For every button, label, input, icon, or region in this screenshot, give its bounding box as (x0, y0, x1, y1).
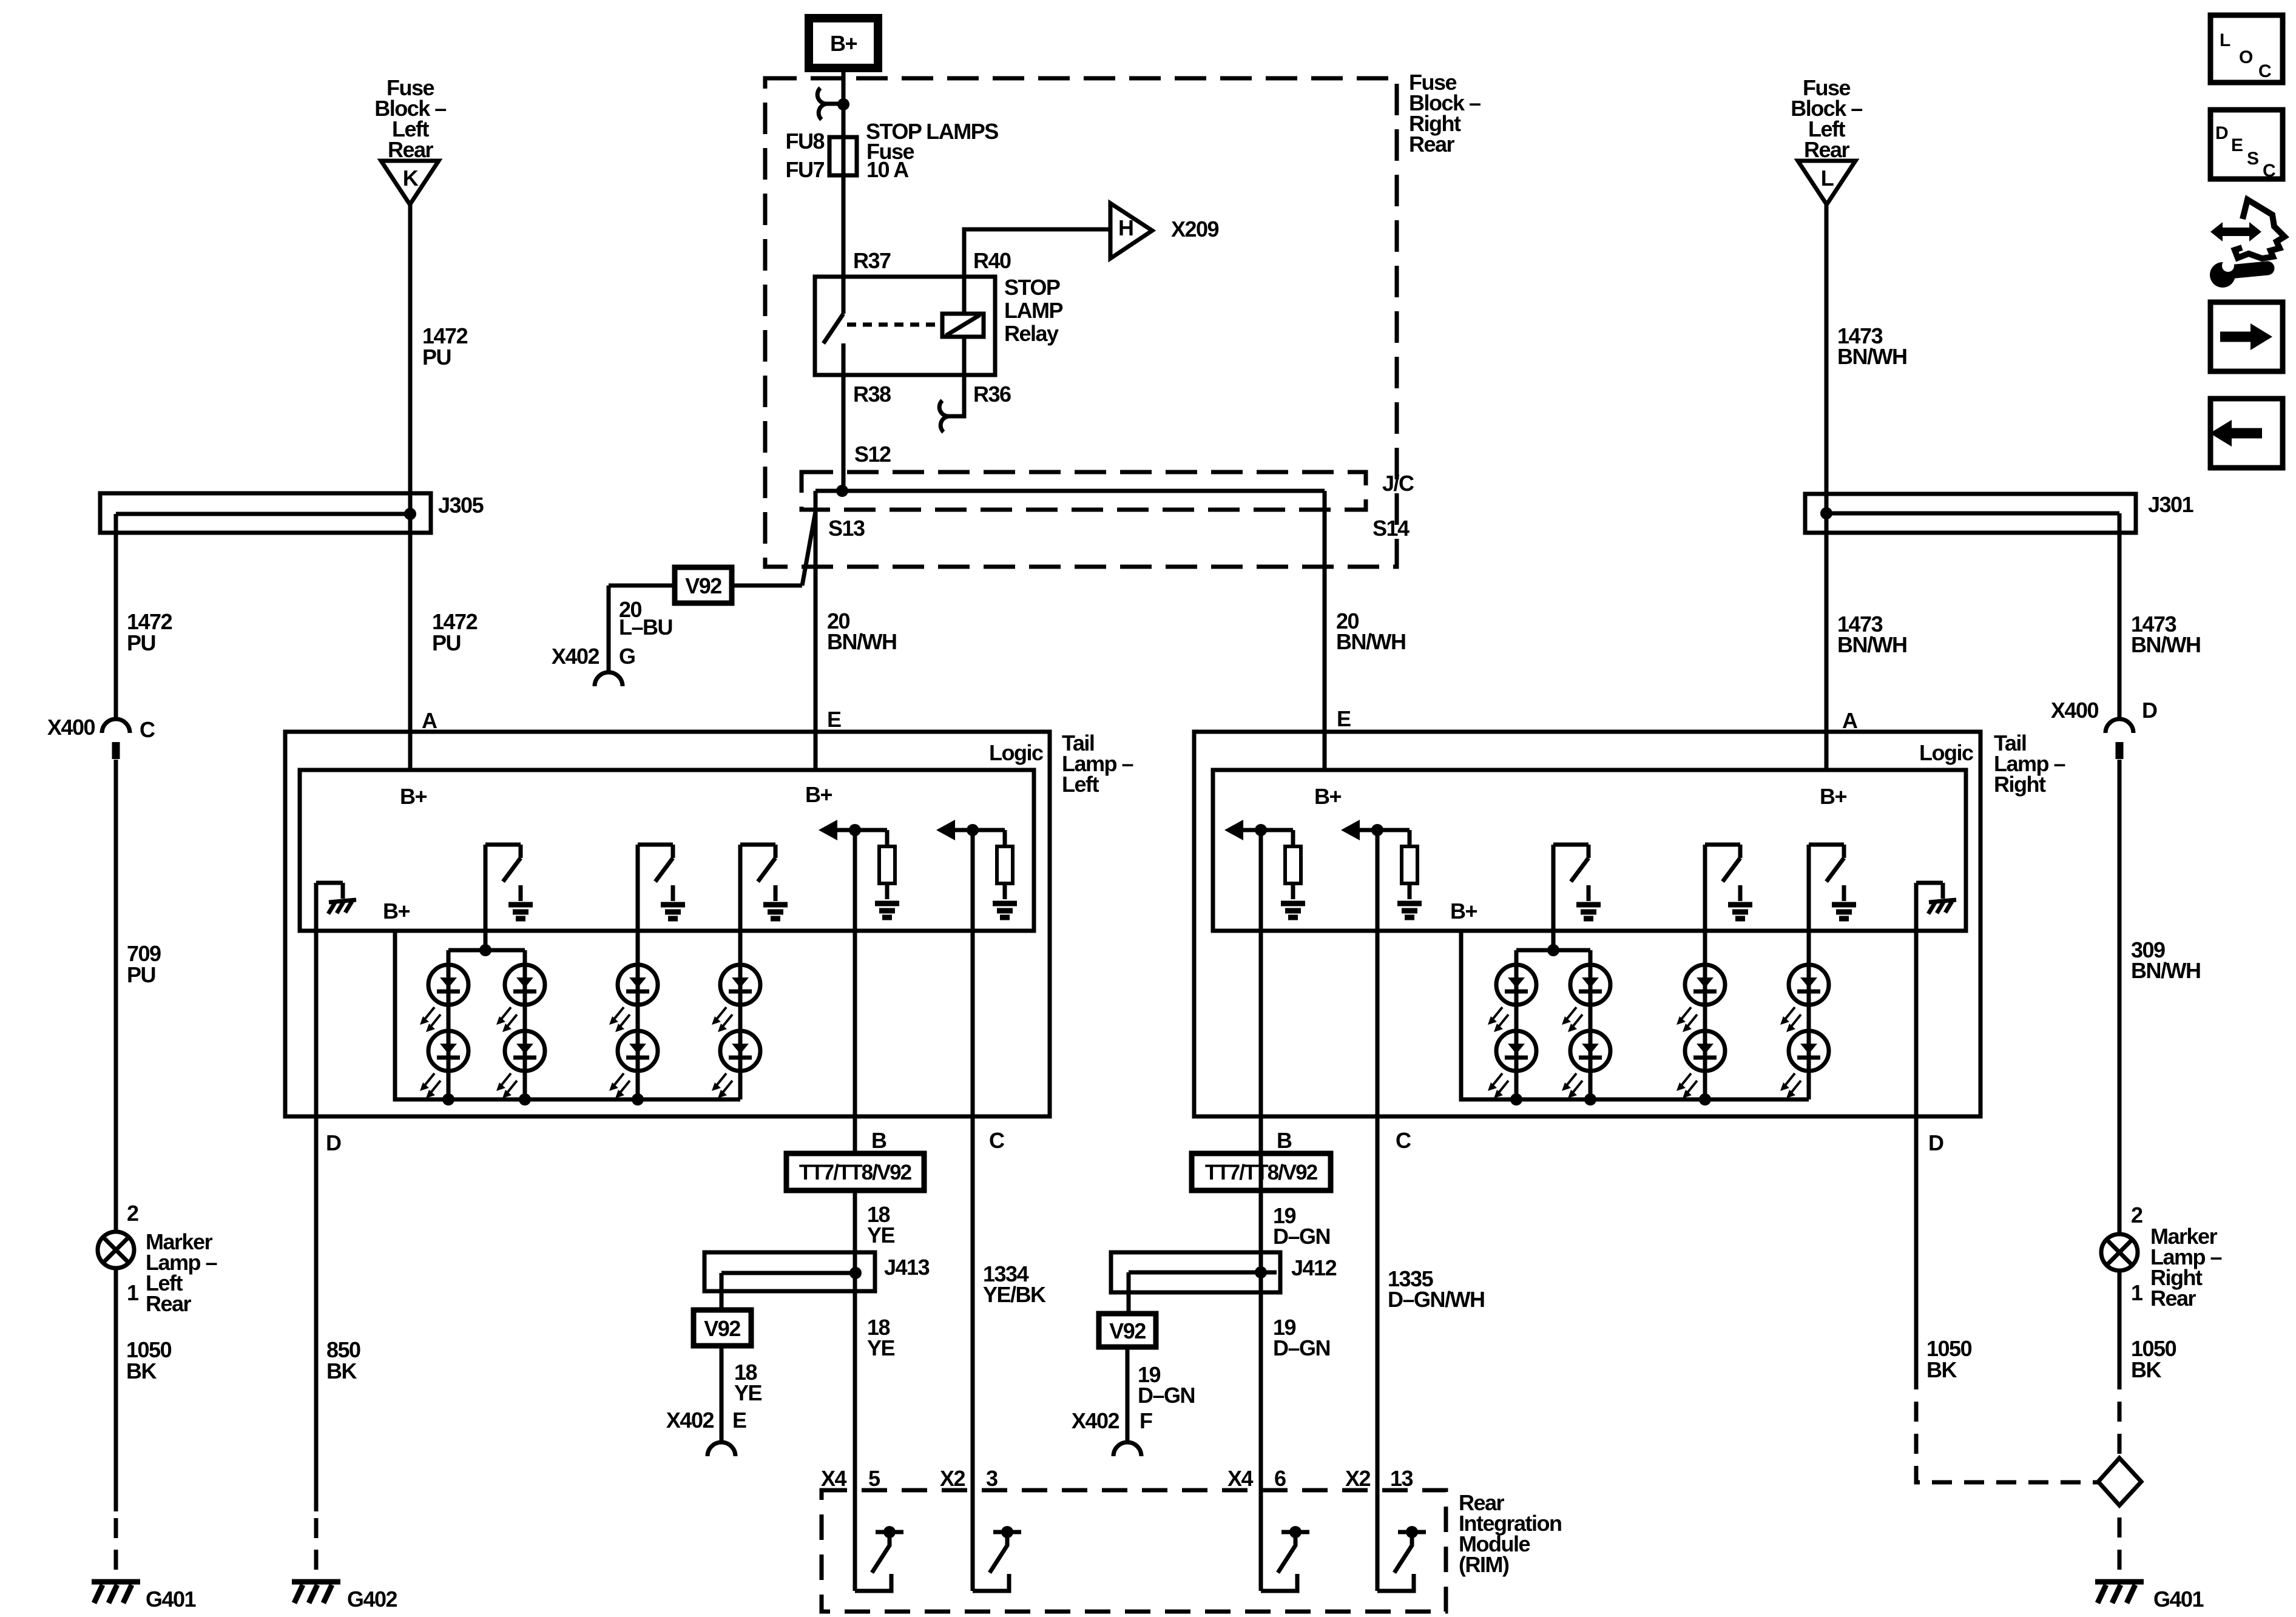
wire J413 to V92 (720, 1273, 724, 1310)
svg-text:E: E (827, 707, 841, 732)
label Tail Lamp Right (1994, 731, 2065, 797)
relay actuation dashed link (847, 323, 941, 327)
svg-text:B+: B+ (1450, 899, 1477, 923)
fuse labels (785, 119, 998, 182)
svg-text:A: A (422, 708, 437, 733)
svg-text:2: 2 (127, 1201, 138, 1226)
B+ feed wire to LED bus left (395, 931, 740, 1099)
svg-text:13: 13 (1390, 1466, 1413, 1491)
svg-text:L: L (1821, 166, 1834, 191)
wire X400 C to marker lamp left (114, 760, 118, 1232)
svg-text:D: D (2215, 123, 2228, 143)
svg-text:X4: X4 (821, 1466, 847, 1491)
svg-text:PU: PU (127, 962, 155, 987)
fuse block right rear label (1409, 70, 1481, 157)
svg-text:C: C (2258, 61, 2271, 81)
svg-text:FU8: FU8 (785, 129, 824, 154)
junction box J/C dashed (802, 472, 1366, 510)
relay coil (942, 314, 984, 337)
relay switch contact (823, 277, 843, 376)
LED D11 (1562, 965, 1610, 1032)
svg-text:B: B (1277, 1128, 1292, 1153)
svg-text:3: 3 (986, 1466, 998, 1491)
svg-text:C: C (1396, 1128, 1411, 1153)
marker lamp right label (2150, 1224, 2222, 1311)
svg-text:STOP: STOP (1004, 275, 1060, 300)
svg-text:PU: PU (422, 345, 451, 370)
splice diamond (2098, 1458, 2141, 1505)
wire label 1473 BN/WH (L lower) (1837, 612, 1906, 657)
svg-text:2: 2 (2131, 1203, 2142, 1227)
svg-text:D: D (326, 1130, 341, 1155)
svg-text:D–GN: D–GN (1273, 1335, 1330, 1360)
wire V92 to X402 F (1126, 1347, 1130, 1442)
junction dot top bus right (1547, 944, 1559, 956)
wire R38 to S12 junction (842, 376, 846, 491)
tail lamp right logic box (1213, 770, 1966, 931)
svg-text:S14: S14 (1373, 516, 1410, 541)
icon vehicle outline (2235, 200, 2284, 258)
marker lamp left label (146, 1229, 217, 1316)
wire bus left end to E pin left lamp (814, 491, 818, 770)
connector X400 C (47, 715, 155, 759)
fuse block right rear dashed box (765, 78, 1397, 567)
LED column wires left (448, 965, 740, 1099)
svg-text:Relay: Relay (1004, 321, 1059, 346)
icon DESC (2210, 110, 2283, 181)
switch 3 left lamp (740, 845, 788, 965)
svg-text:B+: B+ (400, 784, 427, 809)
wire label 19 D-GN lower (1273, 1315, 1330, 1360)
wire marker lamp left to G401 (114, 1268, 118, 1511)
svg-text:E: E (2231, 135, 2243, 155)
ground G401 right (2095, 1582, 2204, 1612)
svg-text:K: K (403, 166, 419, 191)
icon wrench (2210, 260, 2267, 288)
ground G402 (292, 1582, 397, 1612)
svg-text:L: L (2220, 30, 2230, 50)
svg-text:Rear: Rear (2150, 1286, 2196, 1311)
wire label 1335 D-GN/WH (1388, 1266, 1485, 1312)
dashed wire marker to diamond (2118, 1389, 2122, 1458)
LED top bus left (448, 950, 525, 965)
current sense 1 right lamp (1224, 820, 1305, 917)
svg-text:D: D (1928, 1130, 1943, 1155)
inline device V92 (top) (675, 567, 732, 603)
switch 3 right lamp (1809, 845, 1856, 965)
junction dot J412 (1255, 1266, 1267, 1278)
svg-text:D–GN: D–GN (1273, 1224, 1330, 1249)
junction block J305 (100, 493, 484, 533)
junction dot sense 1 left (849, 824, 861, 836)
svg-text:D–GN: D–GN (1138, 1383, 1195, 1408)
wire label 1473 BN/WH (L upper) (1837, 323, 1906, 369)
svg-text:BN/WH: BN/WH (1837, 632, 1906, 657)
wire label 1334 YE/BK (983, 1261, 1046, 1307)
svg-text:Logic: Logic (989, 740, 1043, 765)
svg-text:J412: J412 (1291, 1255, 1337, 1280)
svg-text:Rear: Rear (1409, 132, 1455, 157)
LED D3 (496, 965, 545, 1032)
svg-text:X402: X402 (1072, 1408, 1119, 1433)
icon double arrow (2210, 222, 2261, 241)
LED D8 (712, 1031, 760, 1098)
wire V92 to X402 G (609, 586, 675, 672)
wire J412 to V92 (1127, 1272, 1131, 1314)
wire chassis ground to D pin right (1914, 883, 1919, 1389)
rear integration module dashed box (822, 1490, 1446, 1612)
wire label 1472 PU (left branch) (127, 609, 172, 655)
inline device V92 (left) (694, 1310, 751, 1346)
svg-text:BK: BK (2131, 1357, 2161, 1382)
svg-text:BN/WH: BN/WH (1336, 629, 1405, 654)
fuse FU8/FU7 STOP LAMPS 10A (829, 137, 857, 175)
svg-text:YE/BK: YE/BK (983, 1282, 1046, 1307)
junction dot J305 (404, 508, 416, 520)
junction dot J413 (849, 1267, 862, 1279)
wire marker lamp right down (2118, 1271, 2122, 1389)
stop lamp relay box (815, 277, 995, 375)
wire label 20 L-BU (619, 597, 672, 640)
svg-text:S12: S12 (854, 442, 891, 467)
LED D2 (420, 1031, 468, 1098)
wire label 1050 BK right outer (2131, 1336, 2176, 1382)
LED D7 (712, 965, 760, 1032)
svg-text:1: 1 (127, 1280, 139, 1305)
LED D10 (1488, 1031, 1536, 1098)
wire B+ to relay R37 (842, 68, 846, 277)
current sense 1 left lamp (819, 820, 899, 917)
connector labels X4 5 X2 3 (821, 1466, 998, 1491)
svg-text:PU: PU (432, 630, 461, 655)
RIM switch X2-13 (1377, 1526, 1426, 1591)
LED D15 (1780, 965, 1829, 1032)
relay coil wires R40/R36 (948, 229, 1110, 416)
current sense 2 left lamp (936, 820, 1017, 917)
ground G401 left (92, 1582, 197, 1612)
svg-text:BK: BK (326, 1359, 357, 1383)
wire J305 to X400 C (114, 514, 118, 719)
junction block J301 (1805, 492, 2194, 533)
wire label 309 BN/WH (2131, 937, 2200, 983)
wire label 1472 PU (K upper) (422, 323, 468, 370)
junction dot S12 (836, 485, 848, 497)
svg-text:YE: YE (734, 1380, 762, 1405)
LED D12 (1562, 1031, 1610, 1098)
dashed wire to G402 (314, 1518, 319, 1570)
junction dot sense 2 left (967, 824, 979, 836)
inline device V92 (right) (1099, 1314, 1156, 1347)
svg-text:O: O (2239, 47, 2253, 67)
wire label 1473 BN/WH (right branch) (2131, 612, 2200, 657)
wire K to tail lamp A (408, 204, 413, 770)
svg-text:BN/WH: BN/WH (1837, 344, 1906, 369)
harness label TT7/TT8/V92 left (786, 1153, 924, 1190)
B+ feed wire to LED bus right (1461, 931, 1809, 1099)
svg-text:X402: X402 (552, 644, 599, 669)
svg-text:J305: J305 (438, 493, 484, 518)
svg-text:V92: V92 (1109, 1318, 1146, 1343)
wire L to tail lamp A right (1825, 204, 1829, 770)
svg-text:G402: G402 (347, 1587, 397, 1612)
switch 1 right lamp (1553, 845, 1601, 950)
svg-text:R38: R38 (853, 382, 891, 407)
wire V92 to X402 E (720, 1346, 724, 1442)
junction dots LED bus right (1510, 1093, 1711, 1106)
svg-text:D: D (2142, 698, 2157, 723)
wire label 18 YE upper (867, 1202, 895, 1247)
wire C left lamp (971, 830, 975, 1591)
junction dot sense 1 right (1255, 824, 1267, 836)
svg-text:V92: V92 (704, 1316, 740, 1341)
wire label 19 D-GN (V92 branch) (1138, 1362, 1195, 1408)
label Tail Lamp Left (1062, 731, 1133, 797)
hook at R36 (939, 400, 950, 432)
svg-text:X4: X4 (1227, 1466, 1254, 1491)
connector labels X4 6 X2 13 (1227, 1466, 1413, 1491)
wire label 1050 BK right inner (1926, 1336, 1972, 1382)
svg-text:Right: Right (1994, 772, 2046, 797)
svg-text:F: F (1140, 1408, 1152, 1433)
wire label 19 D-GN upper (1273, 1203, 1330, 1249)
svg-text:J301: J301 (2148, 492, 2194, 517)
svg-text:C: C (2263, 161, 2275, 181)
svg-text:(RIM): (RIM) (1459, 1552, 1509, 1577)
svg-text:D–GN/WH: D–GN/WH (1388, 1287, 1485, 1312)
svg-text:R40: R40 (973, 248, 1011, 273)
fuse block left rear label (L) (1791, 75, 1862, 162)
current sense 2 right lamp (1341, 820, 1422, 917)
svg-text:B+: B+ (1820, 784, 1846, 809)
RIM switch X4-6 (1261, 1526, 1309, 1591)
svg-text:C: C (989, 1128, 1005, 1153)
label Rear Integration Module (RIM) (1459, 1490, 1562, 1577)
svg-text:BN/WH: BN/WH (2131, 632, 2200, 657)
connector X400 D (2051, 698, 2157, 759)
RIM switch X2-3 (973, 1526, 1021, 1591)
svg-text:H: H (1118, 215, 1133, 240)
fuse block left rear label (K) (374, 75, 446, 162)
icon arrow right (2210, 302, 2283, 371)
connector X402 F (1072, 1408, 1152, 1456)
connector triangle L (1798, 161, 1855, 204)
svg-text:Logic: Logic (1919, 740, 1973, 765)
wire bus right end to E pin right lamp (1323, 491, 1327, 770)
switch 2 right lamp (1705, 845, 1752, 965)
dashed wire D to diamond (1916, 1389, 2098, 1482)
svg-text:Rear: Rear (1804, 137, 1850, 162)
svg-text:FU7: FU7 (785, 157, 824, 182)
svg-text:X402: X402 (666, 1408, 714, 1433)
junction dot sense 2 right (1371, 824, 1383, 836)
svg-text:5: 5 (868, 1466, 880, 1491)
svg-text:S: S (2247, 149, 2258, 169)
svg-text:LAMP: LAMP (1004, 298, 1062, 323)
tail lamp right outer box (1194, 732, 1980, 1116)
svg-text:YE: YE (867, 1335, 895, 1360)
svg-text:TT7/TT8/V92: TT7/TT8/V92 (799, 1161, 912, 1184)
tail lamp left logic box (300, 770, 1034, 931)
LED D4 (496, 1031, 545, 1098)
svg-text:Rear: Rear (388, 137, 434, 162)
wire B left lamp (853, 830, 857, 1591)
svg-text:Left: Left (1062, 772, 1099, 797)
LED D13 (1676, 965, 1725, 1032)
svg-text:BN/WH: BN/WH (827, 629, 896, 654)
svg-text:BK: BK (126, 1359, 157, 1383)
svg-text:PU: PU (127, 630, 155, 655)
svg-text:A: A (1842, 708, 1858, 733)
icon arrow left (2210, 399, 2283, 468)
wire label 18 YE (V92 branch) (734, 1360, 762, 1405)
LED D16 (1780, 1031, 1829, 1098)
svg-text:S13: S13 (828, 516, 865, 541)
junction block J412 (1111, 1252, 1337, 1292)
junction dot J301 (1820, 507, 1832, 519)
svg-text:G401: G401 (2153, 1587, 2204, 1612)
RIM switch X4-5 (855, 1526, 903, 1591)
svg-text:BN/WH: BN/WH (2131, 958, 2200, 983)
wire label 1050 BK left (126, 1337, 172, 1383)
svg-text:B+: B+ (830, 31, 857, 56)
harness label TT7/TT8/V92 right (1192, 1153, 1331, 1190)
svg-text:L–BU: L–BU (619, 615, 672, 640)
LED top bus right (1516, 950, 1590, 965)
svg-text:E: E (1337, 706, 1351, 731)
svg-text:E: E (732, 1408, 746, 1433)
svg-text:B+: B+ (805, 782, 832, 807)
wire label 850 BK (326, 1337, 360, 1383)
icon LOC (2210, 15, 2283, 83)
svg-text:X209: X209 (1171, 217, 1219, 241)
junction dots LED bus left (442, 1093, 644, 1106)
battery feed B+ (809, 18, 878, 68)
branch wire to V92 (732, 511, 815, 586)
svg-text:Rear: Rear (146, 1291, 192, 1316)
wire label 1472 PU (K lower) (432, 609, 478, 655)
svg-text:X2: X2 (1345, 1466, 1371, 1491)
svg-text:X400: X400 (47, 715, 95, 740)
switch 1 left lamp (485, 845, 533, 950)
switch 2 left lamp (638, 845, 685, 965)
dashed wire to G401 left (114, 1518, 118, 1570)
wire X400 D to marker lamp right (2118, 760, 2122, 1234)
svg-text:G: G (619, 644, 635, 669)
svg-text:10 A: 10 A (866, 157, 909, 182)
svg-text:C: C (140, 717, 155, 742)
wire chassis ground to D pin left (314, 883, 319, 1511)
connector triangle K (381, 161, 439, 204)
chassis ground left lamp (316, 883, 356, 914)
LED D5 (609, 965, 658, 1032)
LED D6 (609, 1031, 658, 1098)
svg-text:G401: G401 (146, 1587, 197, 1612)
wire label 709 PU (127, 941, 161, 987)
svg-text:B+: B+ (383, 899, 410, 923)
wire J301 to X400 D (2118, 513, 2122, 719)
wire label 20 BN/WH left (827, 609, 896, 654)
svg-text:BK: BK (1926, 1357, 1957, 1382)
wire B right lamp (1259, 830, 1263, 1591)
svg-text:X2: X2 (940, 1466, 965, 1491)
splice bus S13 to S14 (815, 489, 1325, 493)
svg-text:R36: R36 (973, 382, 1011, 407)
dashed wire diamond to G401 right (2118, 1505, 2122, 1580)
tail lamp left outer box (285, 732, 1050, 1116)
relay name label (1004, 275, 1062, 346)
svg-text:X400: X400 (2051, 698, 2099, 723)
junction dot top bus left (479, 944, 491, 956)
LED D1 (420, 965, 468, 1032)
svg-text:R37: R37 (853, 248, 891, 273)
junction dot B+ tap (837, 98, 849, 110)
wire label 20 BN/WH right (1336, 609, 1405, 654)
LED D14 (1676, 1031, 1725, 1098)
marker lamp left rear (98, 1232, 134, 1268)
off-page arrow H to X209 (1110, 203, 1152, 258)
connector X402 G (552, 644, 635, 686)
svg-text:J413: J413 (884, 1255, 930, 1280)
connector X402 E (666, 1408, 746, 1456)
svg-text:B+: B+ (1314, 784, 1341, 809)
LED column wires right (1516, 965, 1809, 1099)
LED D9 (1488, 965, 1536, 1032)
svg-text:V92: V92 (685, 573, 721, 598)
svg-text:YE: YE (867, 1223, 895, 1247)
wire C right lamp (1376, 830, 1380, 1591)
relay pin labels (853, 248, 1011, 407)
svg-text:6: 6 (1274, 1466, 1286, 1491)
svg-text:J/C: J/C (1382, 471, 1414, 496)
marker lamp right rear (2101, 1234, 2138, 1271)
tap hook at B+ feed (817, 88, 843, 120)
svg-text:1: 1 (2131, 1280, 2143, 1305)
junction block J413 (704, 1252, 930, 1291)
svg-text:B: B (871, 1128, 886, 1153)
wire label 18 YE lower (867, 1315, 895, 1360)
chassis ground right lamp (1916, 883, 1956, 914)
